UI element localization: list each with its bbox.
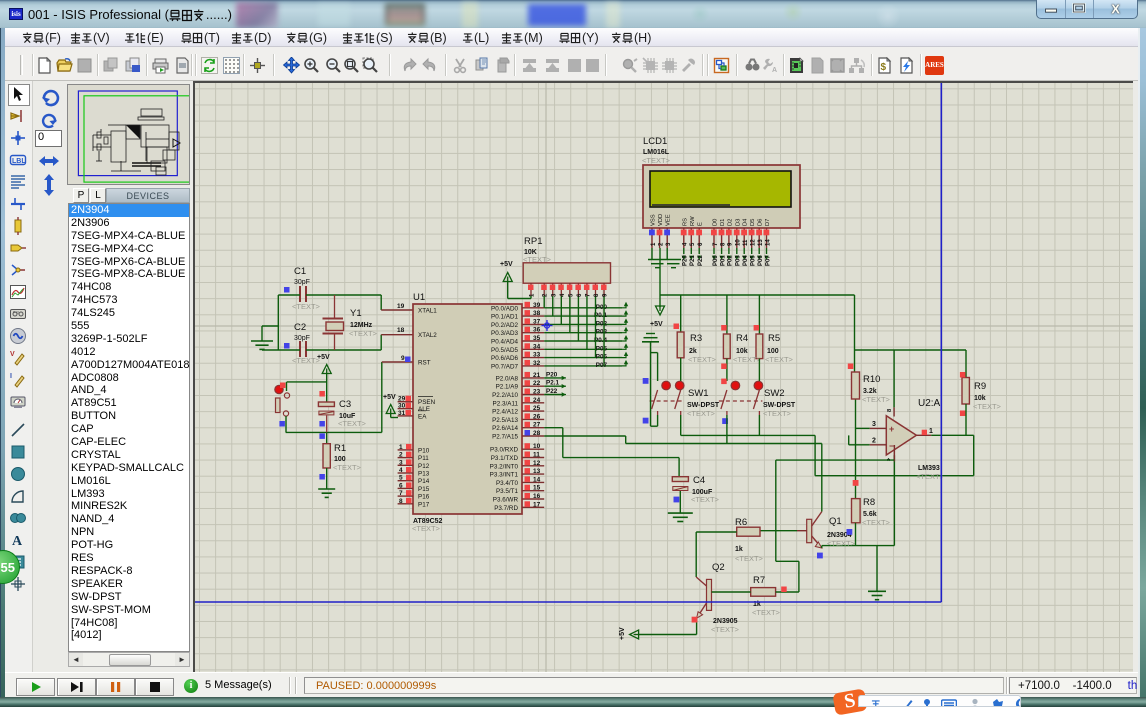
- svg-text:P03: P03: [596, 329, 608, 336]
- svg-text:RP1: RP1: [524, 236, 542, 247]
- svg-text:P3.6/WR: P3.6/WR: [493, 497, 519, 504]
- svg-text:24: 24: [533, 397, 541, 404]
- svg-text:I: I: [10, 373, 12, 380]
- svg-text:1: 1: [399, 444, 403, 451]
- svg-text:35: 35: [533, 335, 541, 342]
- svg-text:$: $: [881, 62, 887, 73]
- svg-text:P0.3/AD3: P0.3/AD3: [491, 330, 518, 337]
- svg-text:<TEXT>: <TEXT>: [292, 302, 321, 311]
- svg-text:<TEXT>: <TEXT>: [973, 402, 1002, 411]
- svg-text:LCD1: LCD1: [643, 136, 667, 147]
- svg-text:3: 3: [872, 421, 876, 428]
- svg-text:6: 6: [399, 482, 403, 489]
- svg-text:P00: P00: [596, 304, 608, 311]
- svg-text:<TEXT>: <TEXT>: [642, 156, 671, 165]
- svg-text:28: 28: [533, 430, 541, 437]
- svg-text:C1: C1: [294, 266, 306, 277]
- svg-text:7: 7: [399, 490, 403, 497]
- svg-text:18: 18: [397, 327, 405, 334]
- svg-text:P06: P06: [758, 255, 764, 266]
- svg-text:P2.3/A11: P2.3/A11: [493, 400, 519, 407]
- svg-text:2N3905: 2N3905: [713, 618, 738, 625]
- svg-text:P16: P16: [418, 494, 430, 501]
- svg-text:C2: C2: [294, 322, 306, 333]
- svg-text:2: 2: [399, 452, 403, 459]
- svg-text:P20: P20: [546, 371, 558, 378]
- svg-text:D4: D4: [743, 218, 749, 226]
- svg-text:Q1: Q1: [829, 516, 842, 527]
- svg-text:LM016L: LM016L: [643, 149, 670, 156]
- svg-text:P04: P04: [743, 255, 749, 266]
- svg-text:Q2: Q2: [712, 562, 725, 573]
- svg-text:P0.2/AD2: P0.2/AD2: [491, 322, 518, 329]
- svg-text:9: 9: [401, 355, 405, 362]
- svg-text:P2.6/A14: P2.6/A14: [492, 425, 518, 432]
- svg-text:D6: D6: [758, 219, 764, 226]
- svg-text:R3: R3: [690, 333, 702, 344]
- svg-text:P3.3/INT1: P3.3/INT1: [490, 472, 519, 479]
- svg-text:37: 37: [533, 318, 541, 325]
- svg-text:<TEXT>: <TEXT>: [827, 539, 856, 548]
- svg-text:<TEXT>: <TEXT>: [687, 409, 716, 418]
- svg-text:VDD: VDD: [658, 214, 664, 226]
- svg-text:SW-DPST: SW-DPST: [763, 402, 796, 409]
- svg-text:+5V: +5V: [500, 261, 513, 268]
- svg-text:P3.4/T0: P3.4/T0: [496, 480, 519, 487]
- svg-text:R5: R5: [768, 333, 780, 344]
- svg-text:SW2: SW2: [764, 388, 785, 399]
- svg-text:LBL: LBL: [12, 158, 26, 165]
- svg-text:P2.5/A13: P2.5/A13: [492, 417, 518, 424]
- svg-text:R4: R4: [736, 333, 748, 344]
- svg-text:<TEXT>: <TEXT>: [412, 524, 441, 533]
- svg-text:P0.5/AD5: P0.5/AD5: [491, 347, 518, 354]
- svg-text:P2.2/A10: P2.2/A10: [492, 392, 518, 399]
- svg-text:P2.0/A8: P2.0/A8: [496, 375, 519, 382]
- svg-text:E: E: [698, 222, 704, 226]
- svg-text:A: A: [12, 534, 23, 549]
- svg-text:+5V: +5V: [317, 354, 330, 361]
- svg-text:<TEXT>: <TEXT>: [862, 518, 891, 527]
- svg-text:A: A: [772, 67, 777, 74]
- svg-text:VEE: VEE: [666, 214, 672, 226]
- svg-text:VSS: VSS: [651, 214, 657, 226]
- svg-text:D0: D0: [713, 219, 719, 226]
- svg-text:P2.1: P2.1: [546, 380, 559, 387]
- svg-text:RST: RST: [418, 360, 431, 367]
- svg-text:P11: P11: [418, 455, 429, 462]
- svg-text:R10: R10: [863, 374, 880, 385]
- svg-text:P0.6/AD6: P0.6/AD6: [491, 355, 518, 362]
- svg-text:U2:A: U2:A: [918, 398, 941, 409]
- svg-text:RW: RW: [690, 216, 696, 226]
- svg-text:D1: D1: [720, 219, 726, 226]
- svg-text:22: 22: [533, 380, 541, 387]
- svg-text:14: 14: [533, 476, 541, 483]
- svg-text:RS: RS: [682, 218, 688, 226]
- svg-text:10k: 10k: [736, 348, 748, 355]
- svg-text:D5: D5: [750, 219, 756, 226]
- svg-text:1k: 1k: [735, 546, 743, 553]
- svg-text:26: 26: [533, 413, 541, 420]
- svg-text:D3: D3: [735, 219, 741, 226]
- svg-text:31: 31: [398, 410, 406, 417]
- svg-text:<TEXT>: <TEXT>: [763, 409, 792, 418]
- svg-text:<TEXT>: <TEXT>: [735, 554, 764, 563]
- svg-text:P14: P14: [418, 478, 430, 485]
- svg-text:P13: P13: [418, 471, 430, 478]
- svg-text:<TEXT>: <TEXT>: [523, 255, 552, 264]
- svg-text:14: 14: [765, 239, 771, 246]
- svg-text:P12: P12: [418, 463, 430, 470]
- svg-text:P3.0/RXD: P3.0/RXD: [490, 447, 518, 454]
- svg-text:+5V: +5V: [383, 394, 396, 401]
- svg-text:15: 15: [533, 485, 541, 492]
- svg-text:10: 10: [533, 443, 541, 450]
- svg-text:U1: U1: [413, 292, 425, 303]
- svg-text:P3.5/T1: P3.5/T1: [496, 488, 519, 495]
- svg-text:3.2k: 3.2k: [863, 388, 877, 395]
- svg-text:XTAL2: XTAL2: [418, 332, 437, 339]
- svg-text:P3.7/RD: P3.7/RD: [494, 505, 518, 512]
- svg-text:<TEXT>: <TEXT>: [338, 419, 367, 428]
- svg-text:P2.1/A9: P2.1/A9: [496, 384, 519, 391]
- svg-text:12MHz: 12MHz: [350, 322, 373, 329]
- svg-text:P02: P02: [728, 255, 734, 266]
- svg-text:4: 4: [399, 467, 403, 474]
- svg-text:<TEXT>: <TEXT>: [765, 355, 794, 364]
- svg-text:10: 10: [736, 239, 742, 246]
- svg-text:23: 23: [533, 389, 541, 396]
- svg-text:P3.1/TXD: P3.1/TXD: [491, 455, 519, 462]
- svg-text:<TEXT>: <TEXT>: [691, 495, 720, 504]
- svg-text:11: 11: [533, 452, 540, 459]
- svg-text:P05: P05: [751, 255, 757, 266]
- svg-text:XTAL1: XTAL1: [418, 308, 437, 315]
- svg-text:36: 36: [533, 327, 541, 334]
- svg-text:R9: R9: [974, 381, 986, 392]
- svg-text:13: 13: [758, 239, 764, 246]
- svg-text:<TEXT>: <TEXT>: [916, 472, 945, 481]
- svg-text:D2: D2: [727, 219, 733, 226]
- svg-text:P00: P00: [713, 255, 719, 266]
- svg-text:19: 19: [397, 303, 405, 310]
- svg-text:13: 13: [533, 468, 541, 475]
- svg-text:ALE: ALE: [418, 406, 430, 413]
- svg-text:<TEXT>: <TEXT>: [349, 329, 378, 338]
- svg-text:SW-DPST: SW-DPST: [687, 402, 720, 409]
- svg-text:<TEXT>: <TEXT>: [688, 355, 717, 364]
- svg-text:100: 100: [334, 456, 346, 463]
- svg-text:P0.4/AD4: P0.4/AD4: [491, 339, 518, 346]
- svg-text:P05: P05: [596, 345, 608, 352]
- svg-text:5.6k: 5.6k: [863, 511, 877, 518]
- svg-text:+5V: +5V: [650, 321, 663, 328]
- svg-text:<TEXT>: <TEXT>: [711, 625, 740, 634]
- svg-text:P07: P07: [596, 362, 608, 369]
- svg-text:<TEXT>: <TEXT>: [862, 395, 891, 404]
- svg-text:LM393: LM393: [918, 465, 940, 472]
- svg-text:<TEXT>: <TEXT>: [752, 608, 781, 617]
- svg-text:P0.0/AD0: P0.0/AD0: [491, 305, 518, 312]
- svg-text:R1: R1: [334, 443, 346, 454]
- svg-text:P02: P02: [596, 320, 608, 327]
- svg-text:C4: C4: [693, 475, 705, 486]
- svg-text:−: −: [889, 441, 894, 451]
- svg-text:17: 17: [533, 501, 541, 508]
- svg-text:C3: C3: [339, 399, 351, 410]
- svg-text:32: 32: [533, 360, 541, 367]
- svg-text:P10: P10: [418, 447, 430, 454]
- svg-text:P22: P22: [698, 255, 704, 266]
- svg-text:21: 21: [533, 372, 541, 379]
- svg-text:12: 12: [533, 460, 541, 467]
- svg-text:P21: P21: [690, 255, 696, 266]
- svg-text:P22: P22: [546, 388, 558, 395]
- svg-text:33: 33: [533, 352, 541, 359]
- svg-text:SW1: SW1: [688, 388, 709, 399]
- svg-text:P0.1/AD1: P0.1/AD1: [491, 314, 518, 321]
- svg-text:P15: P15: [418, 486, 430, 493]
- svg-text:P20: P20: [683, 255, 689, 266]
- svg-text:16: 16: [533, 493, 541, 500]
- svg-text:+5V: +5V: [619, 627, 626, 640]
- svg-text:Y1: Y1: [350, 308, 362, 319]
- svg-text:8: 8: [887, 408, 893, 412]
- svg-text:R7: R7: [753, 575, 765, 586]
- svg-text:2: 2: [872, 438, 876, 445]
- svg-text:1: 1: [929, 428, 933, 435]
- svg-text:P0.7/AD7: P0.7/AD7: [491, 363, 518, 370]
- svg-text:5: 5: [399, 475, 403, 482]
- svg-text:39: 39: [533, 302, 541, 309]
- svg-text:P01: P01: [720, 255, 726, 266]
- svg-text:P17: P17: [418, 501, 430, 508]
- svg-text:27: 27: [533, 422, 541, 429]
- svg-text:*: *: [887, 457, 891, 466]
- svg-text:11: 11: [743, 239, 749, 246]
- svg-text:R8: R8: [863, 497, 875, 508]
- svg-text:P2.4/A12: P2.4/A12: [492, 409, 518, 416]
- svg-text:34: 34: [533, 343, 541, 350]
- svg-text:3: 3: [399, 459, 403, 466]
- svg-text:R6: R6: [735, 517, 747, 528]
- svg-text:30: 30: [398, 403, 406, 410]
- svg-text:10k: 10k: [974, 395, 986, 402]
- svg-text:12: 12: [751, 239, 757, 246]
- svg-text:38: 38: [533, 310, 541, 317]
- svg-text:V: V: [10, 351, 15, 358]
- svg-text:<TEXT>: <TEXT>: [733, 355, 762, 364]
- svg-text:EA: EA: [418, 413, 427, 420]
- svg-text:<TEXT>: <TEXT>: [333, 463, 362, 472]
- svg-text:P03: P03: [736, 255, 742, 266]
- svg-text:100: 100: [767, 348, 779, 355]
- svg-text:P07: P07: [765, 255, 771, 266]
- svg-text:2k: 2k: [689, 348, 697, 355]
- svg-text:D7: D7: [765, 219, 771, 226]
- svg-text:P2.7/A15: P2.7/A15: [492, 434, 518, 441]
- svg-text:P3.2/INT0: P3.2/INT0: [490, 463, 519, 470]
- svg-text:30pF: 30pF: [294, 335, 310, 342]
- svg-text:e.g: e.g: [13, 309, 19, 314]
- svg-text:8: 8: [399, 498, 403, 505]
- svg-text:30pF: 30pF: [294, 279, 310, 286]
- svg-text:25: 25: [533, 405, 541, 412]
- svg-text:+: +: [889, 424, 894, 434]
- svg-text:P06: P06: [596, 354, 608, 361]
